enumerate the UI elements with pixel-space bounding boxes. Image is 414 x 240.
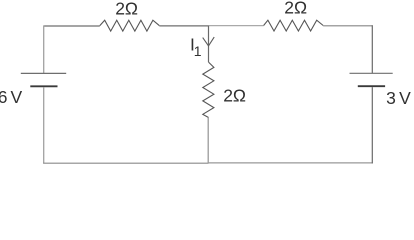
svg-text:2Ω: 2Ω [223, 86, 246, 106]
svg-text:3: 3 [386, 88, 396, 108]
wire bottom-left: corner to center junction [43, 162, 208, 164]
wire left vertical upper: corner down to battery V1 [43, 25, 45, 73]
battery V1 6V: short plate (bottom) [30, 85, 57, 87]
resistor R2 2ohm (top right zigzag) [264, 20, 324, 31]
current arrow I1 (open arrowhead pointing down) [203, 37, 215, 46]
wire top-left: left corner to resistor R1 [44, 25, 100, 27]
wire center branch lower: R3 to bottom junction [207, 118, 209, 164]
wire right vertical upper: corner down to battery V2 [371, 25, 373, 73]
battery V1 6V: long plate (top) [21, 72, 66, 74]
svg-text:V: V [399, 88, 411, 108]
wire left vertical lower: battery V1 to bottom-left corner [43, 87, 45, 163]
wire R1 to center junction [159, 25, 208, 27]
resistor R3 2ohm (middle vertical zigzag) [203, 62, 214, 117]
svg-text:2Ω: 2Ω [115, 0, 138, 19]
svg-text:V: V [11, 87, 23, 107]
wire R2 to top-right corner [323, 25, 372, 27]
battery V2 3V: short plate (bottom) [358, 85, 385, 87]
svg-text:6: 6 [0, 87, 7, 107]
wire center branch upper: junction down to resistor R3 [208, 26, 210, 63]
wire bottom-right: center junction to bottom-right corner [209, 162, 373, 164]
wire center junction to resistor R2 (lighter) [209, 25, 264, 27]
wire right vertical lower: bottom-right corner up to battery V2 [371, 87, 373, 163]
battery V2 3V: long plate (top) [350, 72, 393, 74]
resistor R1 2ohm (top left zigzag) [100, 20, 160, 31]
svg-text:1: 1 [194, 43, 202, 59]
svg-text:2Ω: 2Ω [284, 0, 307, 18]
